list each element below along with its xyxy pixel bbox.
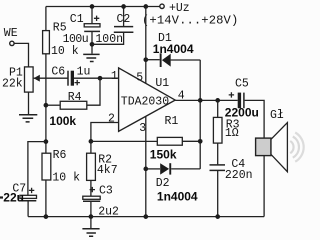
junction D2 tap on pin3 wire: [143, 167, 148, 172]
svg-text:R4: R4: [68, 91, 82, 104]
wire supply to op-amp pin 5: [145, 7, 147, 86]
svg-text:1: 1: [111, 70, 118, 83]
junction pin1/R4: [98, 76, 103, 81]
svg-text:4k7: 4k7: [97, 164, 118, 177]
svg-text:220n: 220n: [225, 169, 253, 182]
junction output/feedback: [198, 98, 203, 103]
svg-text:Gł: Gł: [270, 109, 284, 122]
diode D1 1n4004: [146, 32, 200, 67]
wire output from pin 4 to C5: [175, 99, 238, 101]
junction R1/output bus: [198, 139, 203, 144]
junction rail/pin3: [143, 214, 148, 219]
wire top supply rail: [46, 6, 160, 8]
wire op-amp pin 3 to ground rail: [145, 116, 147, 216]
diode D2 1n4004: [146, 163, 200, 203]
junction rail/C3/ground: [89, 214, 94, 219]
svg-text:100k: 100k: [49, 114, 76, 128]
svg-text:U1: U1: [155, 77, 169, 90]
potentiometer P1 22k: [2, 66, 40, 92]
svg-text:22k: 22k: [2, 77, 23, 90]
junction rail/C1: [90, 4, 95, 9]
svg-text:2: 2: [108, 113, 115, 126]
junction rail/R6: [44, 214, 49, 219]
svg-text:C6: C6: [51, 65, 65, 78]
junction D1 tap on pin5 wire: [143, 57, 148, 62]
svg-text:TDA2030: TDA2030: [121, 95, 169, 108]
junction rail/C2: [121, 4, 126, 9]
resistor R5: [43, 7, 79, 59]
svg-text:1n4004: 1n4004: [153, 42, 194, 56]
svg-text:C2: C2: [117, 13, 131, 26]
svg-text:C5: C5: [235, 77, 249, 90]
svg-text:5: 5: [136, 72, 143, 85]
ground (bottom rail): [82, 217, 99, 237]
resistor R2 4k7: [87, 141, 118, 196]
wire output bus vertical (D1 to D2 via output node): [199, 60, 201, 169]
resistor R6 10k: [42, 142, 80, 217]
svg-text:100n: 100n: [95, 33, 123, 46]
svg-text:100u: 100u: [63, 33, 89, 46]
svg-text:1n4004: 1n4004: [157, 189, 198, 203]
ground (below C1/C2): [83, 54, 99, 61]
resistor R4 100k: [46, 78, 100, 128]
capacitor C2 100n: [92, 7, 133, 46]
capacitor C1 100u: [63, 7, 100, 54]
svg-text:10 k: 10 k: [51, 45, 79, 58]
wire C6 to op-amp pin 1: [74, 77, 119, 79]
terminal +Uz: [142, 2, 238, 28]
wire op-amp pin 2 feedback node: [91, 123, 119, 142]
svg-text:10 k: 10 k: [52, 172, 80, 185]
resistor R1 150k: [91, 115, 200, 161]
wire WE to P1: [14, 43, 28, 67]
svg-text:C3: C3: [99, 185, 113, 198]
svg-text:150k: 150k: [150, 148, 177, 162]
wire bottom ground rail: [28, 216, 264, 218]
junction rail/pin5 branch: [143, 4, 148, 9]
ground (below P1): [19, 92, 37, 122]
capacitor C3 2u2: [83, 185, 119, 219]
svg-text:R6: R6: [53, 149, 67, 162]
capacitor C5 2200u: [225, 77, 264, 138]
svg-text:22u: 22u: [3, 190, 24, 204]
speaker Gl: [256, 109, 304, 216]
capacitor C6 1u: [51, 65, 90, 85]
wire P1 wiper to C6: [34, 77, 68, 79]
svg-text:WE: WE: [4, 27, 18, 40]
junction bias rail/R6/C7: [44, 139, 49, 144]
junction bias rail/R4: [44, 103, 49, 108]
wire left bias rail (R5 bottom to R6 top): [45, 54, 47, 142]
svg-text:1Ω: 1Ω: [225, 127, 239, 140]
junction output/R3: [215, 98, 220, 103]
svg-text:R1: R1: [165, 115, 179, 128]
resistor R3 1ohm: [213, 100, 239, 164]
svg-text:1u: 1u: [77, 66, 91, 79]
capacitor C4 220n: [210, 158, 253, 217]
svg-text:(+14V...+28V): (+14V...+28V): [142, 13, 238, 27]
capacitor C7 22u: [0, 142, 46, 217]
svg-text:D2: D2: [156, 177, 170, 190]
junction feedback node: [89, 139, 94, 144]
op-amp U1 TDA2030: [108, 68, 185, 135]
junction C1/C2 ground node: [90, 42, 95, 47]
svg-text:C1: C1: [70, 13, 84, 26]
input terminal WE: [4, 27, 18, 46]
junction rail/C4: [215, 214, 220, 219]
